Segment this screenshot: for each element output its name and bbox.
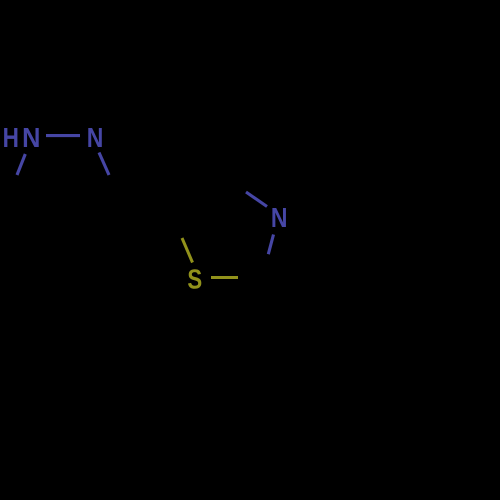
svg-text:N: N [271,202,288,233]
svg-text:N: N [22,122,40,153]
svg-text:H: H [3,122,19,153]
svg-text:N: N [87,122,104,153]
svg-text:S: S [187,263,202,294]
